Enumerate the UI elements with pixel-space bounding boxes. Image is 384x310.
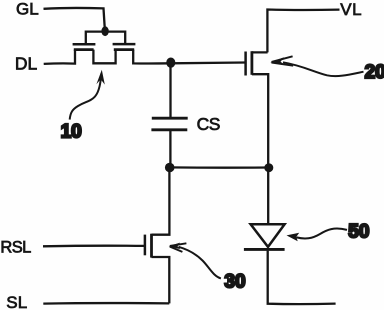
transistor Q10b channel — [114, 48, 134, 51]
leader arrowhead for 50 — [287, 233, 300, 242]
svg-text:RSL: RSL — [0, 238, 31, 256]
wire gate-connect bar with risers to both gates of transistor 10 — [86, 32, 125, 44]
capacitor CS bottom plate — [151, 128, 187, 131]
wire Q10b to node A and on to gate of Q20 — [133, 50, 245, 64]
capacitor CS top plate — [152, 117, 188, 120]
wire RSL to gate of Q30 — [43, 245, 145, 248]
junction dot node C (anode branch) — [264, 163, 273, 172]
leader arrow shaft for 50 — [297, 229, 348, 239]
diode D50 triangle (anode) — [251, 224, 285, 247]
leader arrow shaft for 20 — [283, 62, 364, 76]
svg-text:GL: GL — [16, 0, 39, 19]
transistor Q10b gate bar — [113, 43, 136, 46]
junction dot node B — [165, 163, 175, 173]
leader arrowhead for 30 — [169, 243, 187, 252]
transistor Q10a channel — [74, 48, 94, 51]
leader arrowhead for 10 — [96, 70, 104, 85]
wire VL horizontal to drain of Q20 — [267, 10, 339, 53]
wire node A down to capacitor CS top plate — [169, 63, 171, 117]
transistor Q10a gate bar — [73, 43, 96, 46]
diode D50 cathode bar — [244, 248, 285, 251]
wire node B to node C (horizontal) — [170, 166, 269, 169]
svg-text:30: 30 — [224, 272, 245, 293]
leader arrowhead for 20 — [270, 56, 293, 65]
leader arrow shaft for 30 — [179, 247, 221, 279]
junction dot at GL gate node — [101, 26, 108, 36]
transistor Q30 source leg down to SL — [152, 257, 170, 303]
svg-text:DL: DL — [15, 53, 38, 73]
leader arrow shaft for 10 — [70, 73, 102, 120]
wire diode cathode down and bottom-right rail — [268, 251, 336, 305]
wire GL horizontal and drop to gate node — [44, 8, 105, 28]
svg-text:SL: SL — [6, 293, 27, 310]
svg-text:50: 50 — [348, 222, 369, 243]
transistor Q20 channel — [250, 51, 253, 75]
transistor Q20 source leg down to diode anode — [252, 74, 268, 223]
svg-text:VL: VL — [340, 0, 362, 19]
wire node B down to drain leg of Q30 — [152, 168, 170, 235]
svg-text:20: 20 — [365, 62, 384, 83]
transistor Q30 gate bar — [144, 235, 147, 256]
svg-text:CS: CS — [197, 114, 220, 134]
transistor Q30 channel — [150, 234, 153, 258]
transistor Q20 gate bar — [244, 52, 247, 76]
junction dot node A (DL line / CS) — [166, 58, 175, 68]
wire SL rail — [43, 302, 169, 305]
wire DL to left leg of Q10a — [44, 50, 75, 64]
svg-text:10: 10 — [61, 122, 82, 143]
transistor Q20 drain leg — [252, 51, 268, 53]
wire CS bottom plate down to node B — [169, 131, 171, 168]
wire between Q10a and Q10b source/drain — [93, 50, 115, 64]
